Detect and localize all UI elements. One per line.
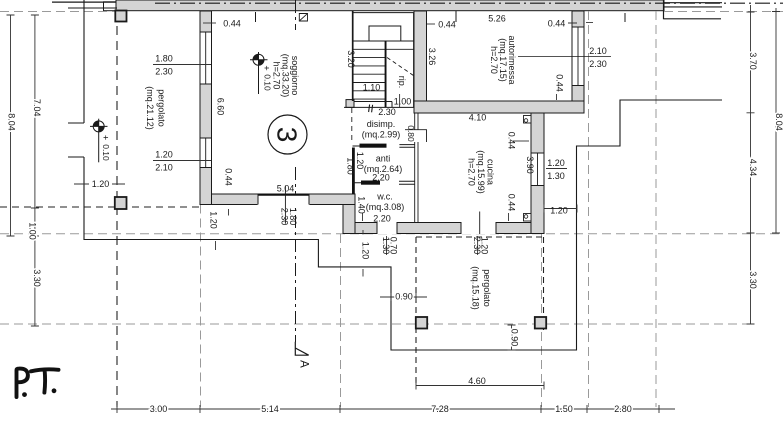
- window cucina east 1.20: [531, 153, 544, 186]
- svg-text:2.20: 2.20: [373, 213, 391, 223]
- grid dashed x340: [340, 234, 342, 407]
- svg-text:0.44: 0.44: [548, 19, 566, 29]
- svg-text:(mq.3.08): (mq.3.08): [366, 202, 405, 212]
- svg-text:2.30: 2.30: [472, 237, 482, 255]
- anti west wall: [352, 148, 355, 195]
- south wall seg2: [397, 223, 461, 234]
- grid dashed x656: [655, 11, 657, 407]
- svg-text:4.60: 4.60: [468, 376, 486, 386]
- svg-text:3.30: 3.30: [32, 269, 42, 287]
- svg-text:8.04: 8.04: [774, 113, 783, 131]
- pergolato2 dashed top edge: [416, 236, 544, 238]
- pergolato2 dashed right edge: [543, 237, 545, 330]
- disimp-anti divider wall: [353, 145, 415, 148]
- road line lower: [68, 7, 117, 9]
- svg-text:(mq.2.99): (mq.2.99): [362, 130, 401, 140]
- section line A dash-dot: [295, 0, 297, 342]
- tick 0.44 cucina NE: [513, 140, 529, 142]
- pergolato pillar mid: [115, 197, 127, 209]
- tick 0.44 cucina SE: [508, 213, 510, 221]
- svg-text:6.60: 6.60: [216, 98, 226, 116]
- svg-text:3: 3: [272, 127, 303, 143]
- svg-text:0.44: 0.44: [223, 19, 241, 29]
- P.T. handwritten label: [17, 369, 28, 397]
- svg-text:1.80: 1.80: [346, 157, 356, 175]
- svg-text:+: +: [262, 65, 272, 70]
- window west 1.80: [200, 32, 212, 84]
- fence end vertical: [663, 0, 665, 19]
- south step block: [343, 205, 355, 234]
- svg-text:(mq.21.12): (mq.21.12): [145, 86, 155, 130]
- dimension line right 8.04: [772, 8, 780, 233]
- svg-text:pergolato: pergolato: [482, 269, 492, 307]
- road line upper: [52, 1, 116, 3]
- tick below 1.20 west: [215, 241, 217, 250]
- benchmark survey point 1: [90, 119, 108, 163]
- boundary dashed horizontal left: [0, 11, 116, 13]
- tick line 0.44 top pergolato: [203, 22, 216, 24]
- anti east / cucina west wall: [415, 113, 418, 223]
- fraction line cucina east 1.20/1.30: [546, 168, 567, 170]
- svg-text:(mq.2.64): (mq.2.64): [364, 164, 403, 174]
- svg-text:pergolato: pergolato: [157, 89, 167, 127]
- grid dashed x588: [588, 11, 590, 407]
- south wall seg3: [496, 223, 544, 234]
- apartment number circle 3: [268, 115, 307, 154]
- soggiorno south wall east segment: [309, 194, 355, 205]
- south wall seg1: [355, 223, 377, 234]
- dimension 1.20 left notch: [74, 183, 125, 185]
- svg-text:2.30: 2.30: [155, 67, 173, 77]
- flue corner square cucina NE: [524, 116, 532, 124]
- tick line 0.44 autorimessa left: [427, 23, 435, 25]
- svg-text:0.44: 0.44: [555, 74, 565, 92]
- svg-text:7.28: 7.28: [431, 404, 449, 414]
- fence line 1: [664, 2, 723, 4]
- tick below 1.20 mid: [362, 213, 365, 277]
- fraction line wc window: [386, 236, 388, 255]
- svg-text:h=2.70: h=2.70: [467, 158, 477, 186]
- boundary dashed y234: [0, 233, 783, 235]
- dimension 4.60: [416, 382, 544, 390]
- dimension line left 8.04: [7, 15, 15, 236]
- door threshold slashes: [369, 105, 373, 113]
- svg-text:(mq.15.18): (mq.15.18): [471, 266, 481, 310]
- svg-text:0.44: 0.44: [438, 20, 456, 30]
- svg-text:h=2.70: h=2.70: [489, 46, 499, 74]
- drain square with diagonal: [299, 14, 307, 22]
- svg-text:0.90: 0.90: [510, 329, 520, 347]
- pergolato2 column right: [535, 317, 546, 329]
- svg-text:4.10: 4.10: [469, 113, 487, 123]
- svg-text:5.14: 5.14: [261, 404, 279, 414]
- grid dashed x200: [200, 205, 202, 408]
- svg-text:2.10: 2.10: [155, 163, 173, 173]
- svg-text:1.20: 1.20: [209, 211, 219, 229]
- stair treads full: [353, 41, 414, 49]
- svg-text:4.34: 4.34: [748, 159, 758, 177]
- svg-text:1.30: 1.30: [547, 171, 565, 181]
- road centerline dash-dot: [155, 2, 783, 4]
- svg-text:1.30: 1.30: [381, 237, 391, 255]
- pergolato1 dashed bottom edge: [0, 206, 200, 208]
- boundary dashed y324: [0, 323, 747, 325]
- fraction line cucina south window: [477, 236, 479, 255]
- svg-text:anti: anti: [376, 154, 391, 164]
- svg-text:w.c.: w.c.: [376, 192, 393, 202]
- stair pier: [346, 100, 354, 108]
- svg-text:1.40: 1.40: [357, 196, 367, 214]
- svg-text:0.44: 0.44: [507, 194, 517, 212]
- disimp west dashed edge: [351, 108, 353, 144]
- svg-text:(mq.15.99): (mq.15.99): [476, 150, 486, 194]
- svg-text:0.10: 0.10: [101, 144, 111, 161]
- stair west wall: [352, 11, 354, 101]
- svg-text:3.20: 3.20: [346, 50, 356, 68]
- pergolato pillar top: [115, 11, 126, 22]
- cucina east wall upper: [531, 113, 544, 153]
- autorimessa east wall upper: [572, 11, 584, 27]
- fence line 3: [664, 18, 722, 20]
- rip stair diagonal dashed: [387, 58, 414, 76]
- svg-text:2.10: 2.10: [589, 46, 607, 56]
- dimension line left 7.04/1.00/3.30: [31, 15, 39, 326]
- svg-text:2.30: 2.30: [589, 59, 607, 69]
- svg-text:cucina: cucina: [486, 159, 496, 185]
- soggiorno south wall west segment: [212, 194, 259, 205]
- svg-text:0.44: 0.44: [224, 168, 234, 186]
- wall tick x625: [624, 13, 626, 22]
- west wall top segment: [200, 11, 212, 32]
- west wall mid segment: [200, 84, 212, 138]
- autorimessa east wall lower: [572, 86, 584, 102]
- svg-text:1.80: 1.80: [155, 54, 173, 64]
- flue corner square cucina SE: [524, 214, 532, 222]
- svg-text:1.20: 1.20: [547, 158, 565, 168]
- svg-text:0.90: 0.90: [395, 292, 413, 302]
- svg-text:3.00: 3.00: [150, 404, 168, 414]
- stair top line: [353, 12, 414, 14]
- stair landing box: [369, 26, 401, 41]
- fraction line window west 1.20/2.10: [153, 160, 211, 162]
- west wall bottom segment: [200, 168, 212, 205]
- dimension 0.90 vertical: [508, 325, 516, 350]
- wc door leaf bar: [361, 181, 380, 185]
- stair east wall line: [413, 13, 415, 108]
- stair treads left flight: [353, 58, 386, 100]
- svg-text:7.04: 7.04: [32, 99, 42, 117]
- svg-text:1.20: 1.20: [155, 150, 173, 160]
- section arrow: [295, 342, 308, 356]
- svg-text:1.20: 1.20: [550, 206, 568, 216]
- svg-text:1.20: 1.20: [355, 152, 365, 170]
- dimension line right 3.70/4.34: [747, 5, 755, 324]
- anti-wc divider wall: [353, 181, 415, 184]
- wall tick x456: [455, 11, 457, 22]
- svg-text:1.20: 1.20: [92, 179, 110, 189]
- svg-text:1.50: 1.50: [555, 404, 573, 414]
- svg-text:3.90: 3.90: [525, 156, 535, 174]
- disimp-cucina door leaf: [405, 130, 427, 142]
- wall tick x255: [255, 12, 257, 22]
- svg-text:5.26: 5.26: [488, 14, 506, 24]
- svg-text:3.70: 3.70: [748, 52, 758, 70]
- svg-text:+: +: [101, 135, 111, 140]
- svg-text:0.44: 0.44: [507, 132, 517, 150]
- window wc south 0.70: [377, 222, 397, 234]
- pergolato2 dashed left edge: [415, 237, 417, 385]
- window soggiorno south 1.80: [258, 186, 310, 224]
- window autorimessa east 2.10: [572, 27, 584, 86]
- svg-text:8.04: 8.04: [7, 113, 17, 131]
- svg-text:3.26: 3.26: [427, 48, 437, 66]
- autorimessa west wall: [414, 11, 427, 101]
- tick 0.44 autorimessa SE: [556, 94, 558, 100]
- dimension 1.20 right of SE corner: [544, 205, 577, 213]
- svg-text:1.10: 1.10: [363, 83, 381, 93]
- dimension line bottom: [111, 405, 675, 413]
- boundary dashed horizontal right: [664, 11, 783, 13]
- autorimessa window center line: [518, 56, 611, 58]
- tick below 0.44 soggiorno SW: [228, 209, 230, 216]
- stair bottom wall lines: [344, 102, 414, 108]
- window cucina south 1.20: [461, 212, 496, 235]
- svg-text:2.80: 2.80: [614, 404, 632, 414]
- svg-text:1.00: 1.00: [28, 222, 38, 240]
- terrace outline stepped: [68, 0, 722, 350]
- wall band under autorimessa: [414, 101, 584, 113]
- stair mid wall: [385, 41, 387, 107]
- svg-text:3.30: 3.30: [748, 271, 758, 289]
- svg-text:soggiorno: soggiorno: [290, 56, 300, 96]
- svg-text:2.30: 2.30: [378, 107, 396, 117]
- svg-text:0.10: 0.10: [263, 74, 273, 91]
- dimension 0.90 horizontal: [380, 293, 427, 301]
- tick rip door center: [399, 94, 401, 108]
- anti door leaf bar: [360, 144, 387, 148]
- fence line 2: [664, 6, 723, 8]
- grid dashed x541: [541, 234, 543, 407]
- svg-text:2.30: 2.30: [280, 208, 290, 226]
- svg-text:5.04: 5.04: [277, 184, 295, 194]
- top band end post: [104, 2, 117, 11]
- window west 1.20: [200, 138, 212, 168]
- top boundary wall band: [116, 0, 664, 11]
- benchmark survey point 2: [250, 52, 268, 94]
- svg-text:1.00: 1.00: [394, 96, 412, 106]
- cucina east wall lower: [531, 186, 544, 234]
- svg-text:0.80: 0.80: [406, 125, 416, 142]
- svg-text:disimp.: disimp.: [367, 119, 396, 129]
- tick line 0.44 autorimessa right: [568, 21, 593, 24]
- svg-text:1.20: 1.20: [361, 242, 371, 260]
- svg-text:rip.: rip.: [397, 76, 407, 89]
- fraction line window west 1.80/2.30: [153, 64, 211, 66]
- pergolato2 column left: [416, 317, 427, 329]
- property dashed vertical x117: [116, 11, 118, 407]
- svg-text:A: A: [298, 360, 310, 368]
